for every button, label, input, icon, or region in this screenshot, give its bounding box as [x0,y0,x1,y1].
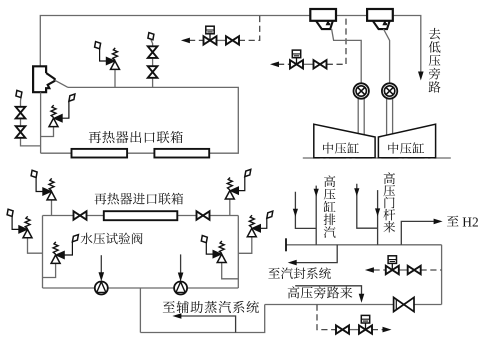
wire HP bypass inlet overline [295,286,361,294]
wire VC1 stem [151,40,153,88]
gate valve (vertical) lower VC1 [148,66,158,78]
gate valve (vertical) upper VC1 [148,46,158,58]
label 去低压旁路 [429,28,441,93]
gate valve on D1 [226,36,239,44]
HP exhaust arrow line AL1 [295,192,316,229]
combined reheat valve 2 [367,9,393,21]
flag on VC1 [148,33,154,40]
flag on vent branch [16,90,22,97]
label 高压门杆来 [383,172,395,232]
wire HL2 [265,304,442,306]
wire RV3 [441,245,443,305]
safety valve SV7 [222,263,239,279]
HP stem leak arrow line AL4 [377,190,379,245]
safety valve SV1 [54,114,63,122]
drain pot 1 [95,282,108,295]
arrow HP bypass into HL2 [359,294,365,303]
inflow arrow to drain pot 2 [180,254,182,272]
IP cylinder left [314,124,375,158]
wire IV1 tails [358,98,364,135]
gate valve (vertical) upper on vent branch [16,107,26,119]
gate valve on D2 [314,60,327,68]
reheater outlet header bar left [72,149,128,158]
wire LB1 to bottom line [139,288,141,333]
wire dashed D3 [374,269,387,271]
safety valve SVa [229,199,231,216]
HP bypass main valve [394,297,414,311]
centerline (dash-dot) [303,157,453,159]
reheater outlet header bar right [154,149,209,158]
control valve CV2 [290,60,303,68]
arrow to gland seal [288,260,297,266]
wire outlet loop top/right [68,87,238,153]
wire LV2 [42,216,44,289]
wire funnel outlet diagonal [55,80,68,87]
HP exhaust arrow line AL2 [315,186,317,245]
wire dashed drain D1 [189,39,204,41]
gate valve on D3 [408,266,421,274]
gate valve V2b on ML2 [197,211,210,219]
reheater inlet header bar [104,211,178,220]
wire ML3 [286,244,442,246]
intercept valve IV1 [354,83,369,98]
wire dashed drain D2 [278,63,290,65]
wire dashed D4 [317,305,336,330]
safety valve SV3 [51,200,53,215]
IP cylinder right [378,124,435,158]
wire aux steam arrow line [180,316,236,333]
control valve CV4 [359,325,372,333]
svg-text:H2: H2 [462,214,478,229]
label 至汽封系统 [268,267,331,279]
safety valve SV4 [28,238,43,253]
wire IV2 tails [387,98,393,135]
gate valve V2a on ML2 [74,211,87,219]
arrow to aux steam system [172,313,181,319]
wire valve1 outlet [332,29,362,84]
inflow arrow to drain pot 1 [100,255,102,272]
label 中压缸 right [388,142,424,153]
wire LB1 [43,287,239,289]
label 高压旁路来 [288,286,353,298]
label 水压试验阀 [81,233,143,245]
wire valve2 outlet [384,29,390,84]
drain pot 2 [174,282,187,295]
intercept valve IV2 [382,83,397,98]
arrow D4 outlet [383,327,392,333]
wire SV2 drain [114,70,116,88]
label 至 H2 [447,216,459,227]
control valve CV1 [204,36,217,44]
gate valve on D4 [336,325,349,333]
label 再热器进口联箱 [94,193,183,205]
label 再热器出口联箱 [89,131,183,143]
wire RV right vertical [237,216,239,289]
safety valve SVb [238,237,252,254]
atmospheric relief valve (funnel) [33,66,55,92]
wire outlet loop bottom segments [41,92,155,153]
ML3 end cap [285,238,287,251]
label 中压缸 left [323,142,359,153]
arrow D1 [181,38,190,44]
arrow D2 [270,62,279,68]
combined reheat valve 1 [310,9,336,21]
HP stem leak arrow line AL3 [357,184,378,228]
wire top main line [40,16,421,72]
safety valve SV5 [43,264,56,278]
wire SV1 drain [41,127,54,137]
gate valve (vertical) lower on vent branch [16,126,26,138]
control valve CV3 [386,266,399,274]
wire ML2 [43,215,239,217]
arrow D3 [365,267,374,273]
wire left vent branch [21,97,41,145]
wire bottom line BL [140,305,264,333]
arrow to H2 [434,219,443,225]
wire gland seal branch [296,245,338,263]
arrow to LP bypass [418,72,424,81]
label 高压缸排汽 [324,175,336,238]
label 至辅助蒸汽系统 [163,301,259,313]
wire to H2 branch [401,221,434,244]
safety valve SV2 [106,57,115,65]
